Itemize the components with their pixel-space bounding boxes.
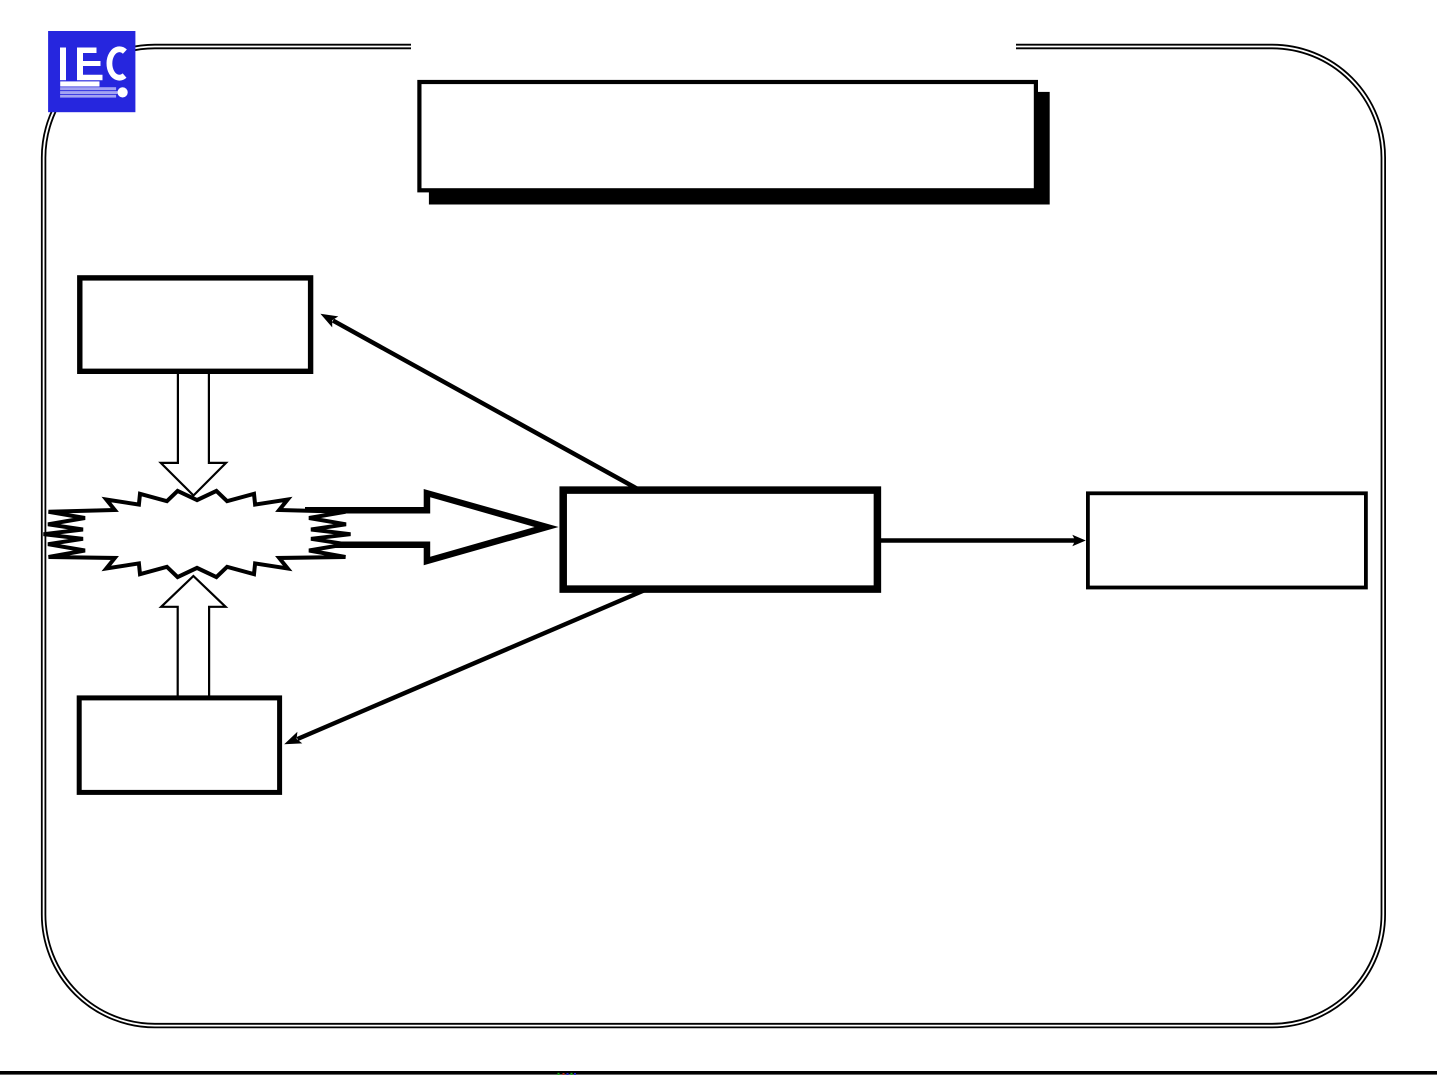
starburst <box>44 491 351 577</box>
IEC stripe 2 <box>60 91 118 94</box>
IEC logo <box>48 31 135 112</box>
down block arrow <box>161 372 226 496</box>
big block arrow to central box <box>305 489 559 565</box>
IEC stripe 1 <box>60 87 116 90</box>
arrow to right box <box>877 535 1086 547</box>
IEC underline <box>60 81 99 86</box>
IEC letter E <box>77 48 103 81</box>
right box <box>1088 493 1366 587</box>
arrow to bottom-left box <box>284 586 655 745</box>
central box <box>563 490 877 589</box>
footer rule <box>0 1071 1437 1075</box>
bottom-left box <box>79 698 279 793</box>
footer specks <box>558 1073 577 1075</box>
top-left box <box>80 278 311 371</box>
arrow to top-left box <box>320 314 648 495</box>
IEC letter I <box>60 48 66 81</box>
title box shadow <box>429 92 1050 205</box>
title box <box>419 82 1036 190</box>
IEC letter C <box>109 49 124 77</box>
up block arrow <box>161 576 225 697</box>
IEC stripe 3 <box>60 95 116 98</box>
top border gap <box>411 41 1016 52</box>
IEC pencil dot <box>118 87 128 97</box>
